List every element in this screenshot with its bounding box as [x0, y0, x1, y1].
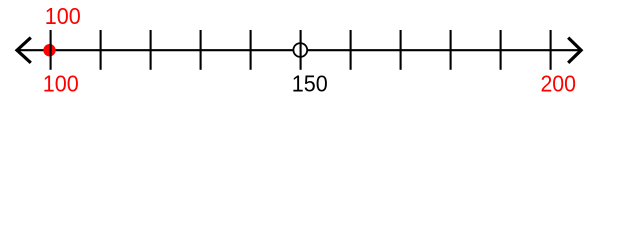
- tick 110: [100, 30, 102, 70]
- tick 200: [550, 30, 552, 70]
- tick 160: [350, 30, 352, 70]
- right arrowhead: [568, 38, 581, 63]
- svg-text:100: 100: [43, 70, 79, 96]
- tick 120: [150, 30, 152, 70]
- tick 150: [300, 30, 302, 70]
- svg-text:150: 150: [292, 70, 328, 96]
- tick 180: [450, 30, 452, 70]
- svg-text:100: 100: [45, 3, 81, 29]
- tick 170: [400, 30, 402, 70]
- left arrowhead: [17, 38, 31, 63]
- tick 100: [50, 30, 52, 70]
- filled point at 100: [43, 44, 55, 56]
- tick 130: [200, 30, 202, 70]
- svg-text:200: 200: [540, 70, 576, 96]
- tick 190: [500, 30, 502, 70]
- tick 140: [250, 30, 252, 70]
- open circle at 150: [293, 43, 307, 57]
- number line axis: [17, 49, 581, 51]
